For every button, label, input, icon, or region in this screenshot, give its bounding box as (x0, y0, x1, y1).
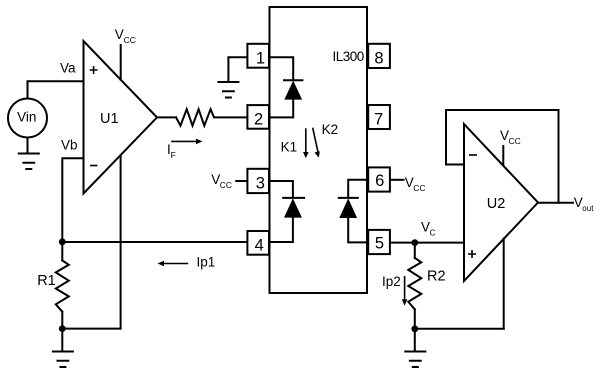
svg-text:1: 1 (256, 50, 265, 68)
svg-text:7: 7 (374, 111, 383, 129)
svg-text:V: V (115, 27, 124, 42)
svg-text:K2: K2 (322, 122, 339, 137)
svg-text:Vin: Vin (17, 110, 36, 125)
svg-text:out: out (582, 204, 594, 213)
svg-text:IL300: IL300 (333, 49, 364, 64)
svg-text:Ip2: Ip2 (382, 274, 401, 289)
svg-text:Ip1: Ip1 (197, 255, 216, 270)
svg-text:6: 6 (375, 172, 384, 190)
svg-text:C: C (430, 228, 436, 238)
svg-text:R2: R2 (427, 268, 446, 284)
svg-text:U2: U2 (487, 196, 506, 212)
svg-text:3: 3 (256, 174, 265, 192)
svg-text:Vb: Vb (61, 138, 78, 153)
svg-text:R1: R1 (37, 273, 56, 289)
svg-text:CC: CC (509, 136, 521, 146)
svg-text:CC: CC (413, 183, 425, 193)
svg-text:Va: Va (60, 61, 76, 76)
svg-text:4: 4 (255, 237, 264, 255)
svg-text:5: 5 (375, 235, 384, 253)
svg-text:8: 8 (374, 49, 383, 67)
svg-text:CC: CC (124, 35, 136, 45)
svg-text:K1: K1 (281, 140, 298, 155)
svg-text:F: F (171, 150, 176, 160)
svg-text:2: 2 (254, 110, 263, 128)
svg-text:U1: U1 (100, 111, 119, 127)
svg-text:CC: CC (220, 180, 232, 190)
